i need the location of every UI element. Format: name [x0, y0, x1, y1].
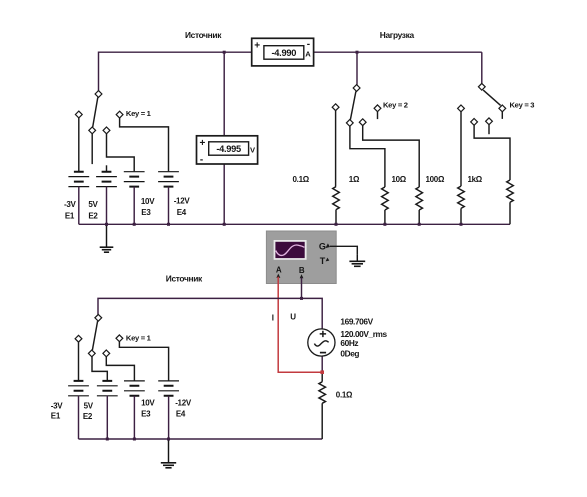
label: 0.1 Ohm (R6 value) — [336, 390, 353, 399]
node: bottom bus E3 — [133, 438, 136, 441]
svg-text:-: - — [200, 155, 203, 166]
wire: battery E2 top stub — [106, 165, 108, 171]
label: AC source parameters — [340, 317, 387, 359]
svg-text:U: U — [290, 313, 296, 322]
svg-text:5V: 5V — [88, 200, 98, 209]
label: Key = 1 (bottom circuit) — [126, 334, 152, 343]
svg-text:169.706V: 169.706V — [340, 317, 373, 327]
svg-text:-3V: -3V — [51, 402, 64, 411]
wire: Key1 contact to battery E4 — [120, 118, 169, 171]
svg-text:Key = 3: Key = 3 — [510, 101, 535, 110]
svg-text:Источник: Источник — [166, 274, 203, 284]
label: 0.1 Ohm (R1 value) — [293, 175, 310, 184]
battery E1 (-3V) top circuit — [68, 172, 89, 225]
svg-text:Нагрузка: Нагрузка — [380, 30, 415, 40]
wire: S4 arm contact to battery E2 (bottom) — [92, 357, 107, 381]
svg-text:-4.995: -4.995 — [216, 144, 241, 154]
wire: S1 arm contact dangling stub — [91, 134, 93, 164]
svg-text:Источник: Источник — [185, 30, 222, 40]
svg-text:E4: E4 — [176, 409, 186, 418]
wire: voltmeter bottom to ground bus — [223, 164, 225, 224]
battery E4 (-12V) top circuit — [158, 172, 179, 225]
switch S1 arm (top circuit) — [93, 97, 98, 127]
switch S2 key terminal node — [374, 105, 381, 112]
label: Key = 1 (top circuit) — [126, 109, 152, 118]
label: 10V E3 (top) — [141, 197, 155, 217]
wire: S1 contact to battery E3 — [107, 134, 135, 172]
switch S2 arm contact node — [346, 120, 353, 127]
wire: key3 feed drop — [481, 52, 483, 83]
wire: top circuit ground bus — [79, 223, 510, 225]
svg-text:0.1Ω: 0.1Ω — [293, 175, 310, 184]
node: bus E3 — [133, 223, 136, 226]
node: top rail / key2 tee — [356, 51, 359, 54]
oscilloscope XSC1 — [266, 231, 336, 284]
svg-text:Key = 1: Key = 1 — [126, 334, 152, 343]
svg-text:0.1Ω: 0.1Ω — [336, 390, 353, 399]
svg-text:E2: E2 — [83, 412, 93, 421]
ammeter U1 (-4.990 A) — [252, 38, 314, 66]
svg-text:A: A — [305, 50, 311, 59]
label: Источник (bottom) — [166, 274, 203, 284]
wire: S2 throw to resistor R3 — [363, 126, 420, 187]
svg-text:E2: E2 — [88, 211, 98, 220]
wire: S4 key contact to battery E4 (bottom) — [119, 342, 168, 381]
svg-text:10V: 10V — [141, 399, 155, 408]
battery E4 (-12V) bottom circuit — [158, 381, 179, 439]
svg-text:-: - — [307, 39, 310, 50]
switch S1 arm contact node — [89, 127, 96, 134]
wire: S3 throw to resistor R4 — [460, 112, 462, 186]
svg-text:5V: 5V — [84, 402, 94, 411]
svg-text:1Ω: 1Ω — [349, 175, 360, 184]
resistor R5 body — [507, 180, 514, 224]
svg-text:E3: E3 — [141, 208, 151, 217]
wire: bottom circuit top rail — [98, 298, 322, 329]
node: bus E4 — [167, 223, 170, 226]
svg-text:G: G — [319, 242, 326, 252]
wire: voltmeter top feed — [223, 52, 225, 136]
label: Key = 3 — [510, 101, 535, 110]
node: bus R1 — [335, 223, 338, 226]
switch S4 arm (bottom Key=1) — [92, 321, 97, 350]
svg-text:E1: E1 — [51, 412, 61, 421]
svg-text:I: I — [272, 314, 274, 323]
switch S3 pivot node — [478, 83, 485, 90]
svg-text:Key = 2: Key = 2 — [383, 100, 408, 109]
svg-text:60Hz: 60Hz — [340, 338, 358, 348]
svg-text:-3V: -3V — [64, 200, 77, 209]
AC source V1 — [308, 329, 335, 356]
label: I (current probe wire) — [272, 314, 274, 323]
switch S1 throw node (E1) — [75, 111, 82, 118]
label: Key = 2 — [383, 100, 408, 109]
switch S4 arm contact node — [88, 350, 95, 357]
node: top rail / voltmeter tee — [223, 51, 226, 54]
svg-text:A: A — [276, 266, 282, 275]
svg-text:10Ω: 10Ω — [392, 175, 407, 184]
label: 100 Ohm (R4 value) — [426, 175, 445, 184]
switch S4 throw node (E3) — [103, 350, 110, 357]
ground symbol below E4 (bottom circuit) — [161, 439, 176, 468]
switch S1 pivot node — [95, 91, 102, 98]
node: B wire tee on bottom rail — [300, 297, 303, 300]
resistor R1 body — [333, 187, 340, 225]
svg-text:+: + — [200, 138, 206, 149]
svg-text:E1: E1 — [65, 211, 75, 220]
resistor R2 body — [382, 187, 389, 224]
wire: S3 arm contact dangling stub — [501, 112, 503, 119]
resistor R3 body — [416, 187, 423, 224]
switch S4 pivot node — [95, 314, 102, 321]
label: -3V E1 (top) — [64, 200, 77, 220]
switch S2 arm (Key=2) — [350, 91, 356, 119]
wire: bottom circuit ground bus — [79, 438, 323, 440]
wire: scope channel B to bottom circuit (U) — [301, 278, 303, 299]
switch S4 throw node (E1) — [75, 335, 82, 342]
node: bus E2 — [105, 223, 108, 226]
wire: S4 throw to battery E1 (bottom) — [78, 342, 80, 381]
node: bus R3 — [418, 223, 421, 226]
label: -12V E4 (top) — [174, 197, 191, 218]
svg-text:E4: E4 — [177, 208, 187, 217]
switch S3 throw node (R4) — [458, 105, 465, 112]
switch S3 second key node — [486, 118, 493, 125]
battery E3 (10V) top circuit — [124, 172, 145, 225]
node: bus R4 — [460, 223, 463, 226]
svg-text:100Ω: 100Ω — [426, 175, 445, 184]
battery E2 (5V) bottom circuit — [97, 381, 118, 439]
label: 10V E3 (bottom) — [141, 399, 155, 419]
svg-text:B: B — [299, 266, 305, 275]
label: 5V E2 (top) — [88, 200, 98, 220]
wire: key2 feed drop — [356, 52, 358, 84]
svg-text:+: + — [254, 40, 260, 51]
resistor R6 (0.1 Ohm shunt) — [319, 372, 326, 439]
wire: S4 throw to battery E3 (bottom) — [106, 357, 134, 381]
node: bus R2 — [383, 223, 386, 226]
svg-text:10V: 10V — [141, 197, 155, 206]
svg-text:0Deg: 0Deg — [340, 348, 359, 358]
switch S1 throw node (E3) — [103, 127, 110, 134]
switch S3 arm (Key=3) — [483, 90, 500, 105]
wire: top rail from switch S1 to ammeter — [99, 52, 252, 91]
svg-text:1kΩ: 1kΩ — [468, 175, 483, 184]
label: 5V E2 (bottom) — [83, 402, 94, 421]
node: red probe junction at shunt — [320, 370, 324, 374]
label: 1 Ohm (R2 value) — [349, 175, 360, 184]
svg-text:-12V: -12V — [174, 197, 191, 206]
label: 1k Ohm (R5 value) — [468, 175, 483, 184]
ground symbol at scope — [349, 254, 365, 266]
wire: S3 throw to resistor R5 — [474, 125, 510, 180]
wire: S1 throw to battery E1 — [78, 118, 80, 171]
battery E1 (-3V) bottom circuit — [68, 381, 89, 439]
svg-text:-4.990: -4.990 — [272, 48, 297, 58]
resistor R4 body — [458, 186, 465, 224]
label: Нагрузка — [380, 30, 415, 40]
label: 10 Ohm (R3 value) — [392, 175, 407, 184]
label: -12V E4 (bottom) — [175, 399, 192, 419]
label: -3V E1 (bottom) — [51, 402, 64, 421]
svg-text:T: T — [320, 256, 326, 266]
switch S4 key terminal node — [116, 335, 123, 342]
label: Источник (top) — [185, 30, 222, 40]
wire: S3 second key dangling stub — [488, 125, 490, 135]
node: bottom bus E4 — [167, 438, 170, 441]
wire: scope G terminal to ground — [330, 246, 357, 254]
wire: S2 key dangling stub — [377, 112, 379, 119]
switch S2 throw node (R1) — [332, 104, 339, 111]
svg-text:-12V: -12V — [175, 399, 192, 408]
switch S1 key terminal node — [116, 111, 123, 118]
svg-text:E3: E3 — [141, 409, 151, 418]
label: U (voltage probe wire) — [290, 313, 296, 322]
wire: AC source to shunt junction — [321, 356, 323, 372]
wire: scope channel A red probe — [278, 277, 322, 372]
switch S3 throw node (R5) — [471, 119, 478, 126]
node: bus voltmeter — [223, 223, 226, 226]
wire: S2 arm contact to resistor R2 — [350, 126, 385, 187]
wire: ammeter to load rail with branches — [314, 51, 482, 53]
ground symbol below E2 (top circuit) — [100, 224, 114, 252]
battery E3 (10V) bottom circuit — [124, 381, 145, 439]
battery E2 (5V) top circuit — [96, 172, 117, 225]
voltmeter U2 (-4.995 V) — [197, 136, 258, 166]
node: bottom bus E2 — [106, 438, 109, 441]
switch S2 pivot node — [353, 85, 360, 92]
wire: S2 throw to resistor R1 — [335, 111, 337, 187]
svg-text:Key = 1: Key = 1 — [126, 109, 152, 118]
switch S3 arm contact node — [499, 105, 506, 112]
switch S2 throw node (R3) — [359, 119, 366, 126]
